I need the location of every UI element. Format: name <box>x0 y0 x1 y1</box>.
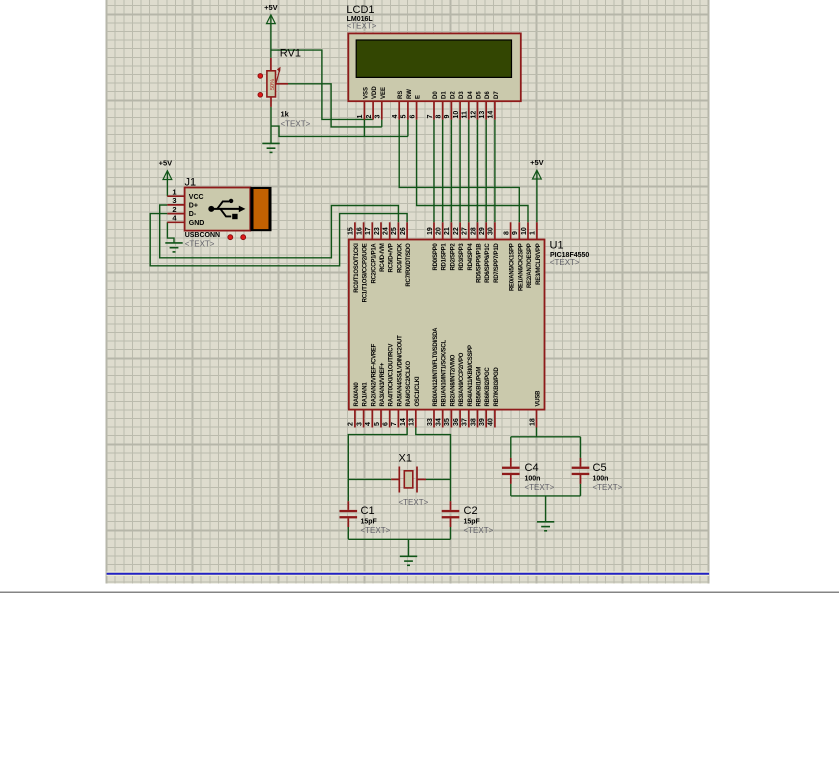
wire LCD E to U1 pin10 <box>417 120 528 223</box>
svg-text:VCC: VCC <box>189 194 204 201</box>
svg-text:C2: C2 <box>464 505 478 517</box>
U1 pin 10 (RE2/AN7/OESPP) top <box>521 222 533 288</box>
U1 pin 36 (RB3/AN9/CCP2/VPO) bottom <box>453 352 465 427</box>
svg-text:<TEXT>: <TEXT> <box>185 240 215 249</box>
svg-text:C4: C4 <box>525 462 539 474</box>
wire X1 right wire <box>426 478 451 480</box>
svg-text:4: 4 <box>392 115 399 119</box>
svg-text:<TEXT>: <TEXT> <box>281 120 311 129</box>
svg-text:22: 22 <box>453 227 460 235</box>
U1 pin 37 (RB4/AN11/KBI0/CSSPP) bottom <box>462 345 474 428</box>
svg-text:11: 11 <box>462 111 469 119</box>
svg-text:RD7/SPP7/P1D: RD7/SPP7/P1D <box>494 243 500 283</box>
wire X1 left lead <box>391 478 399 480</box>
svg-text:7: 7 <box>427 115 434 119</box>
U1 pin 24 (RC5/D+/VP) top <box>383 222 395 272</box>
svg-text:3: 3 <box>375 115 382 119</box>
svg-text:C1: C1 <box>361 505 375 517</box>
svg-text:U1: U1 <box>550 239 564 251</box>
U1 pin 18 (VUSB) bottom <box>529 390 541 428</box>
wire LCD VEE drop <box>381 120 383 127</box>
U1 pin 27 (RD4/SPP4) top <box>462 222 474 270</box>
capacitor C5 <box>572 467 590 475</box>
svg-text:+5V: +5V <box>159 159 173 168</box>
svg-text:D2: D2 <box>450 91 456 99</box>
svg-text:33: 33 <box>427 418 434 426</box>
svg-text:LCD1: LCD1 <box>346 4 374 16</box>
power +5V above U1 pin1 <box>530 158 544 179</box>
svg-text:15pF: 15pF <box>361 519 378 526</box>
wire RV1 bottom to ground <box>270 107 272 143</box>
svg-text:VDD: VDD <box>372 86 378 99</box>
svg-text:RC6/TX/CK: RC6/TX/CK <box>397 243 403 273</box>
svg-text:14: 14 <box>488 111 495 119</box>
svg-text:VEE: VEE <box>381 87 387 99</box>
wire C1 to bottom rail <box>347 527 349 539</box>
svg-text:RC5/D+/VP: RC5/D+/VP <box>389 243 395 272</box>
J1 marker dot right <box>241 235 246 240</box>
svg-text:17: 17 <box>365 227 372 235</box>
J1 marker dot left <box>228 235 233 240</box>
svg-text:30: 30 <box>488 227 495 235</box>
U1 pin 5 (RA3/AN3/VREF+) bottom <box>374 362 386 427</box>
LCD1 pin 4 (RS) <box>392 91 404 120</box>
svg-text:5: 5 <box>374 422 381 426</box>
svg-text:RB7/KBI3/PGD: RB7/KBI3/PGD <box>494 367 500 407</box>
wire C2 to bottom rail <box>450 527 452 539</box>
svg-text:39: 39 <box>479 418 486 426</box>
wire LCD D4 to U1 RD4 <box>468 120 470 223</box>
svg-text:2: 2 <box>348 422 355 426</box>
LCD1 pin 8 (D1) <box>436 91 448 120</box>
svg-text:1: 1 <box>172 187 176 196</box>
svg-text:21: 21 <box>444 227 451 235</box>
svg-text:RD3/SPP3: RD3/SPP3 <box>459 243 465 271</box>
LCD1 pin 6 (E) <box>409 95 421 120</box>
svg-text:RA3/AN3/VREF+: RA3/AN3/VREF+ <box>380 362 386 406</box>
svg-text:2: 2 <box>366 115 373 119</box>
svg-text:RD2/SPP2: RD2/SPP2 <box>450 243 456 271</box>
svg-text:13: 13 <box>409 418 416 426</box>
svg-text:RB0/AN12/INT0/FLT0/SDI/SDA: RB0/AN12/INT0/FLT0/SDI/SDA <box>433 327 439 407</box>
svg-text:9: 9 <box>444 115 451 119</box>
RV1 junction marker lower <box>258 93 263 98</box>
svg-text:RE0/AN5/CK1SPP: RE0/AN5/CK1SPP <box>510 243 516 291</box>
U1 pin 6 (RA4/T0CKI/C1OUT/RCV) bottom <box>383 344 395 428</box>
svg-text:5: 5 <box>401 115 408 119</box>
ground below C4/C5 <box>537 522 554 531</box>
wire C4 top lead <box>510 458 512 467</box>
svg-text:D-: D- <box>189 211 197 218</box>
wire LCD D5 to U1 RD5 <box>477 120 479 223</box>
svg-text:E: E <box>416 95 422 99</box>
svg-text:15: 15 <box>348 227 355 235</box>
svg-text:37: 37 <box>462 418 469 426</box>
wire C4/C5 bottom rail <box>511 495 581 497</box>
U1 pin 13 (OSC1/CLKI) bottom <box>409 376 421 427</box>
svg-text:RE1/AN6/CK2SPP: RE1/AN6/CK2SPP <box>518 243 524 291</box>
wire RV1 bottom lead <box>270 97 272 107</box>
wire U1 OSC2 pin14 to X1 left rail <box>348 428 407 502</box>
wire RV1 top lead <box>270 58 272 71</box>
svg-text:15pF: 15pF <box>464 519 481 526</box>
LCD1 pin 1 (VSS) <box>357 87 369 120</box>
sheet edge blue line <box>107 571 710 576</box>
svg-text:<TEXT>: <TEXT> <box>361 526 391 535</box>
svg-text:35: 35 <box>444 418 451 426</box>
svg-text:RD4/SPP4: RD4/SPP4 <box>468 243 474 271</box>
svg-text:USBCONN: USBCONN <box>185 232 220 239</box>
svg-text:RB3/AN9/CCP2/VPO: RB3/AN9/CCP2/VPO <box>459 352 465 406</box>
wire C5 top wire <box>580 437 582 458</box>
svg-text:27: 27 <box>462 227 469 235</box>
J1 pin 2 (D-) <box>167 205 197 218</box>
U1 pin 28 (RD5/SPP5/P1B) top <box>470 222 482 283</box>
svg-text:3: 3 <box>356 422 363 426</box>
wire LCD D6 to U1 RD6 <box>485 120 487 223</box>
svg-text:RW: RW <box>407 89 413 99</box>
U1 pin 20 (RD1/SPP1) top <box>436 222 448 270</box>
svg-text:D1: D1 <box>442 91 448 99</box>
svg-text:RA1/AN1: RA1/AN1 <box>363 382 369 407</box>
U1 pin 14 (RA6/OSC2/CLKO) bottom <box>400 360 412 427</box>
RV1 junction marker upper <box>258 74 263 79</box>
svg-text:RV1: RV1 <box>280 48 301 60</box>
LCD1 pin 12 (D5) <box>470 91 482 120</box>
LCD1 pin 5 (RW) <box>401 89 413 120</box>
LCD1 pin 10 (D3) <box>453 91 465 120</box>
svg-text:50%: 50% <box>270 79 276 90</box>
svg-text:29: 29 <box>479 227 486 235</box>
svg-text:12: 12 <box>470 111 477 119</box>
svg-text:13: 13 <box>479 111 486 119</box>
svg-text:RD0/SPP0: RD0/SPP0 <box>433 243 439 271</box>
svg-text:RA6/OSC2/CLKO: RA6/OSC2/CLKO <box>406 360 412 406</box>
svg-text:C5: C5 <box>593 462 607 474</box>
wire +5V to LCD VDD <box>271 50 373 119</box>
svg-text:D7: D7 <box>494 91 500 99</box>
wire LCD RW to ground rail <box>407 120 409 137</box>
U1 pin 21 (RD2/SPP2) top <box>444 222 456 270</box>
wire C4/C5 top rail <box>511 436 581 438</box>
wire C4 bottom wire <box>510 484 512 496</box>
LCD1 pin 7 (D0) <box>427 91 439 120</box>
U1 pin 38 (RB5/KBI1/PGM) bottom <box>470 367 482 428</box>
wire LCD D2 to U1 RD2 <box>450 120 452 223</box>
U1 pin 7 (RA5/AN4/SS/LVDIN/C2OUT) bottom <box>391 335 403 428</box>
svg-text:36: 36 <box>453 418 460 426</box>
svg-text:+5V: +5V <box>264 3 278 12</box>
USB connector J1 body <box>185 187 272 231</box>
LCD display LCD1 body <box>348 33 521 101</box>
U1 pin 39 (RB6/KBI2/PGC) bottom <box>479 367 491 428</box>
wire J1 GND to ground <box>167 222 174 243</box>
ground below crystal rail <box>400 556 417 565</box>
svg-text:+5V: +5V <box>530 158 544 167</box>
wire LCD D1 to U1 RD1 <box>442 120 444 223</box>
svg-text:1: 1 <box>357 115 364 119</box>
wire +5V to U1 MCLR pin1 <box>536 171 538 222</box>
U1 pin 30 (RD7/SPP7/P1D) top <box>488 222 500 283</box>
svg-text:8: 8 <box>436 115 443 119</box>
svg-text:RB6/KBI2/PGC: RB6/KBI2/PGC <box>485 367 491 407</box>
svg-text:RE3/MCLR/VPP: RE3/MCLR/VPP <box>536 243 542 285</box>
svg-text:D6: D6 <box>485 91 491 99</box>
svg-text:1: 1 <box>530 231 537 235</box>
svg-text:<TEXT>: <TEXT> <box>550 258 580 267</box>
U1 pin 16 (RC1/T1OSI/CCP2/UOE) top <box>356 222 368 302</box>
svg-text:RA2/AN2/VREF-/CVREF: RA2/AN2/VREF-/CVREF <box>371 343 377 406</box>
U1 pin 22 (RD3/SPP3) top <box>453 222 465 270</box>
svg-text:RD5/SPP5/P1B: RD5/SPP5/P1B <box>477 243 483 283</box>
crystal X1 <box>399 467 417 493</box>
LCD1 pin 11 (D4) <box>462 91 474 120</box>
J1 pin 4 (GND) <box>167 214 204 227</box>
wire crystal rail to ground <box>408 539 410 556</box>
potentiometer RV1 <box>267 67 281 97</box>
schematic sheet grid <box>107 0 710 583</box>
svg-text:<TEXT>: <TEXT> <box>525 483 555 492</box>
svg-text:19: 19 <box>427 227 434 235</box>
capacitor C1 <box>340 510 358 518</box>
U1 pin 29 (RD6/SPP6/P1C) top <box>479 222 491 283</box>
U1 pin 33 (RB0/AN12/INT0/FLT0/SDI/SDA) bottom <box>427 327 439 428</box>
svg-text:RA0/AN0: RA0/AN0 <box>354 382 360 407</box>
svg-text:RD6/SPP6/P1C: RD6/SPP6/P1C <box>485 243 491 283</box>
U1 pin 17 (RC2/CCP1/P1A) top <box>365 222 377 283</box>
J1 pin 3 (D+) <box>167 196 198 209</box>
svg-text:6: 6 <box>383 422 390 426</box>
wire C5 top lead <box>580 458 582 467</box>
LCD1 pin 14 (D7) <box>488 91 500 120</box>
wire C5 bottom lead <box>580 475 582 484</box>
wire C4 bottom lead <box>510 475 512 484</box>
svg-text:23: 23 <box>374 227 381 235</box>
svg-text:7: 7 <box>391 422 398 426</box>
LCD1 pin 2 (VDD) <box>366 86 378 120</box>
U1 pin 19 (RD0/SPP0) top <box>427 222 439 270</box>
svg-text:16: 16 <box>356 227 363 235</box>
wire X1 left wire <box>348 478 391 480</box>
U1 pin 40 (RB7/KBI3/PGD) bottom <box>488 367 500 428</box>
svg-text:26: 26 <box>400 227 407 235</box>
svg-text:2: 2 <box>172 205 176 214</box>
svg-text:40: 40 <box>488 418 495 426</box>
wire J1 D- to U1 pin26 <box>150 214 407 266</box>
U1 pin 26 (RC7/RX/DT/SDO) top <box>400 222 412 286</box>
ground below J1 <box>165 243 182 252</box>
svg-text:RC4/D-/VM: RC4/D-/VM <box>380 243 386 272</box>
svg-text:RA4/T0CKI/C1OUT/RCV: RA4/T0CKI/C1OUT/RCV <box>389 344 395 407</box>
svg-text:D0: D0 <box>433 91 439 99</box>
U1 pin 3 (RA1/AN1) bottom <box>356 382 368 428</box>
svg-text:RB5/KBI1/PGM: RB5/KBI1/PGM <box>477 367 483 407</box>
wire J1 D+ to U1 pin25 <box>160 205 399 258</box>
svg-text:24: 24 <box>383 227 390 235</box>
wire RV1 wiper lead <box>276 83 289 85</box>
U1 pin 23 (RC4/D-/VM) top <box>374 222 386 272</box>
LCD1 pin 13 (D6) <box>479 91 491 120</box>
svg-text:20: 20 <box>436 227 443 235</box>
svg-text:RB1/AN10/INT1/SCK/SCL: RB1/AN10/INT1/SCK/SCL <box>442 339 448 406</box>
svg-text:14: 14 <box>400 418 407 426</box>
wire LCD D3 to U1 RD3 <box>459 120 461 223</box>
svg-text:100n: 100n <box>593 476 609 483</box>
svg-text:<TEXT>: <TEXT> <box>593 483 623 492</box>
svg-text:D4: D4 <box>468 91 474 99</box>
wire ground rail under LCD <box>271 126 408 136</box>
svg-text:100n: 100n <box>525 476 541 483</box>
ground below RV1 <box>262 143 279 152</box>
wire LCD RS to U1 pin9 <box>399 120 519 223</box>
svg-text:8: 8 <box>503 231 510 235</box>
svg-text:28: 28 <box>470 227 477 235</box>
wire crystal ground rail <box>348 538 450 540</box>
wire U1 OSC1 pin13 to X1 right rail <box>416 428 451 502</box>
U1 pin 9 (RE1/AN6/CK2SPP) top <box>512 222 524 291</box>
wire C4 top wire <box>510 437 512 458</box>
svg-text:<TEXT>: <TEXT> <box>464 526 494 535</box>
svg-text:6: 6 <box>409 115 416 119</box>
wire C2 bottom lead <box>450 518 452 527</box>
U1 pin 25 (RC6/TX/CK) top <box>391 222 403 273</box>
svg-text:OSC1/CLKI: OSC1/CLKI <box>415 376 421 406</box>
svg-text:D5: D5 <box>477 91 483 99</box>
svg-text:J1: J1 <box>185 176 197 188</box>
LCD1 pin 9 (D2) <box>444 91 456 120</box>
svg-text:RA5/AN4/SS/LVDIN/C2OUT: RA5/AN4/SS/LVDIN/C2OUT <box>397 335 403 407</box>
svg-text:X1: X1 <box>399 453 412 465</box>
svg-text:VSS: VSS <box>363 87 369 99</box>
svg-text:RB2/AN8/INT2/VMO: RB2/AN8/INT2/VMO <box>450 354 456 406</box>
svg-text:VUSB: VUSB <box>536 390 542 407</box>
U1 pin 8 (RE0/AN5/CK1SPP) top <box>503 222 515 291</box>
J1 pin 1 (VCC) <box>167 187 203 200</box>
wire +5V to RV1 top (green) <box>270 16 272 58</box>
wire LCD D7 to U1 RD7 <box>494 120 496 223</box>
wire C2 top lead <box>450 501 452 510</box>
svg-text:RE2/AN7/OESPP: RE2/AN7/OESPP <box>527 243 533 288</box>
svg-text:RC2/CCP1/P1A: RC2/CCP1/P1A <box>371 243 377 284</box>
svg-text:D+: D+ <box>189 203 198 210</box>
svg-text:D3: D3 <box>459 91 465 99</box>
wire C1 top lead <box>347 501 349 510</box>
wire C5 bottom wire <box>580 484 582 496</box>
svg-text:RC0/T1OSO/T1CKI: RC0/T1OSO/T1CKI <box>354 243 360 293</box>
U1 pin 4 (RA2/AN2/VREF-/CVREF) bottom <box>365 343 377 427</box>
svg-text:RB4/AN11/KBI0/CSSPP: RB4/AN11/KBI0/CSSPP <box>468 345 474 407</box>
svg-text:RC7/RX/DT/SDO: RC7/RX/DT/SDO <box>406 243 412 287</box>
J1 USB trident icon <box>208 199 245 220</box>
window separator line <box>0 591 839 593</box>
svg-text:34: 34 <box>436 418 443 426</box>
power +5V above J1 <box>159 159 173 180</box>
U1 pin 1 (RE3/MCLR/VPP) top <box>530 222 542 285</box>
svg-text:3: 3 <box>172 196 176 205</box>
U1 pin 35 (RB2/AN8/INT2/VMO) bottom <box>444 354 456 427</box>
svg-text:10: 10 <box>521 227 528 235</box>
U1 pin 34 (RB1/AN10/INT1/SCK/SCL) bottom <box>436 339 448 427</box>
wire LCD D0 to U1 RD0 <box>433 120 435 223</box>
svg-text:RS: RS <box>398 91 404 99</box>
U1 pin 2 (RA0/AN0) bottom <box>348 382 360 428</box>
svg-text:<TEXT>: <TEXT> <box>347 22 377 31</box>
capacitor C2 <box>442 510 460 518</box>
svg-text:38: 38 <box>470 418 477 426</box>
svg-text:4: 4 <box>365 422 372 426</box>
wire +5V to J1 VCC <box>166 172 168 197</box>
wire X1 right lead <box>417 478 426 480</box>
wire U1 VUSB pin18 drop <box>536 428 538 437</box>
svg-text:9: 9 <box>512 231 519 235</box>
svg-text:RC1/T1OSI/CCP2/UOE: RC1/T1OSI/CCP2/UOE <box>363 243 369 302</box>
svg-text:<TEXT>: <TEXT> <box>399 498 429 507</box>
svg-text:18: 18 <box>529 418 536 426</box>
LCD1 pin 3 (VEE) <box>375 87 387 120</box>
wire RV1 wiper to LCD VEE <box>288 84 382 127</box>
wire C1 bottom lead <box>347 518 349 527</box>
U1 pin 15 (RC0/T1OSO/T1CKI) top <box>348 222 360 292</box>
svg-text:GND: GND <box>189 220 205 227</box>
wire C4/C5 rail to ground <box>545 496 547 522</box>
power +5V above RV1 <box>264 3 278 24</box>
capacitor C4 <box>502 467 520 475</box>
svg-text:25: 25 <box>391 227 398 235</box>
svg-text:10: 10 <box>453 111 460 119</box>
svg-text:1k: 1k <box>281 110 290 119</box>
microcontroller U1 body <box>349 240 545 410</box>
wire LCD VSS to ground rail <box>363 120 365 137</box>
svg-text:RD1/SPP1: RD1/SPP1 <box>442 243 448 271</box>
